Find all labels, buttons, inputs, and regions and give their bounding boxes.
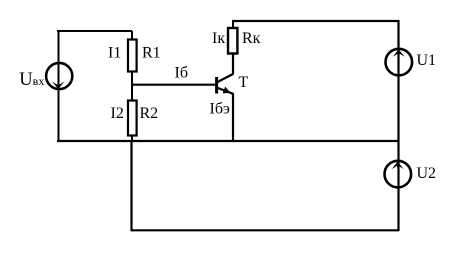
wire top-left horizontal bbox=[57, 30, 132, 32]
wire right vertical bbox=[397, 20, 399, 231]
resistor R1 bbox=[128, 40, 137, 72]
svg-text:Uвх: Uвх bbox=[19, 70, 44, 90]
svg-text:I1: I1 bbox=[108, 45, 121, 62]
wire stub base node to R2 top bbox=[131, 84, 133, 101]
wire stub R1 top bbox=[131, 31, 133, 40]
svg-text:Iк: Iк bbox=[212, 30, 225, 47]
wire base bbox=[131, 84, 217, 86]
resistor Rк bbox=[228, 28, 237, 54]
svg-text:Iб: Iб bbox=[175, 65, 188, 82]
wire left-bottom vertical bbox=[130, 141, 132, 231]
source U2 bbox=[385, 161, 412, 188]
transistor T bbox=[217, 74, 233, 94]
svg-text:R2: R2 bbox=[140, 105, 159, 122]
source U1 bbox=[386, 49, 413, 76]
svg-text:U2: U2 bbox=[417, 165, 437, 182]
wire middle horizontal bbox=[57, 140, 399, 142]
wire left vertical (Uвх branch) bbox=[58, 30, 60, 142]
svg-text:T: T bbox=[239, 74, 249, 91]
svg-text:U1: U1 bbox=[417, 52, 437, 69]
wire top horizontal bbox=[232, 20, 399, 22]
svg-text:Rк: Rк bbox=[242, 30, 261, 47]
wire emitter vertical bbox=[232, 93, 234, 142]
wire stub Rк top bbox=[232, 21, 234, 29]
wire bottom horizontal bbox=[132, 229, 400, 231]
svg-text:R1: R1 bbox=[142, 45, 161, 62]
resistor R2 bbox=[128, 101, 137, 136]
svg-text:I2: I2 bbox=[111, 105, 124, 122]
source Uвх bbox=[46, 63, 72, 89]
wire collector vertical bbox=[232, 53, 234, 75]
wire stub R1 bottom to base node bbox=[131, 72, 133, 87]
svg-text:Iбэ: Iбэ bbox=[210, 101, 230, 118]
wire stub R2 bottom bbox=[131, 136, 133, 143]
